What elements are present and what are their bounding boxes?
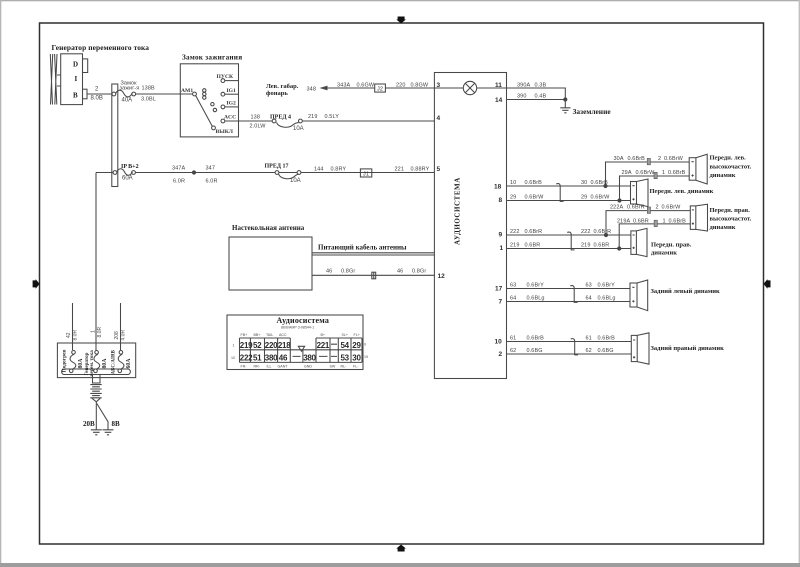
page edge left — [0, 0, 1, 567]
audio connector table box — [227, 315, 363, 370]
svg-text:6.0R: 6.0R — [173, 179, 185, 185]
wire branch tweeter L minus — [620, 176, 690, 201]
svg-text:460.8Gr: 460.8Gr — [326, 268, 355, 274]
svg-text:IG2: IG2 — [227, 101, 237, 107]
front left speaker — [631, 179, 649, 207]
battery fuse box — [57, 343, 135, 378]
harness mark front right pair — [567, 232, 574, 250]
svg-text:GND: GND — [304, 364, 312, 368]
svg-text:343A0.6GW: 343A0.6GW — [337, 82, 375, 88]
svg-text:610.6BrB: 610.6BrB — [510, 336, 544, 342]
front right speaker — [631, 228, 647, 256]
svg-text:зажиг-я: зажиг-я — [120, 86, 140, 92]
page edge right — [799, 0, 800, 567]
svg-text:14: 14 — [495, 97, 503, 104]
svg-text:4.0R: 4.0R — [121, 330, 127, 341]
svg-text:348: 348 — [307, 86, 316, 92]
ground junction node — [563, 97, 567, 101]
svg-text:ACC: ACC — [224, 115, 236, 121]
svg-text:SL+: SL+ — [342, 333, 349, 337]
fusible link Подогрев 80A — [62, 350, 85, 373]
wire antenna to pin 12 — [312, 274, 434, 276]
fusible link strip — [112, 84, 118, 187]
table row 1 numbers — [240, 341, 362, 350]
svg-text:11: 11 — [495, 82, 502, 89]
svg-text:8.0B: 8.0B — [91, 95, 103, 101]
svg-text:380: 380 — [265, 353, 278, 362]
svg-text:высокочастот.: высокочастот. — [710, 164, 752, 171]
svg-text:3900.4B: 3900.4B — [517, 94, 546, 100]
fuse ПРЕД 4 10A — [270, 114, 304, 132]
svg-text:5: 5 — [437, 166, 441, 173]
fusible link Генератор перем. тока 80A — [85, 350, 108, 377]
wire pin 2 to rear right speaker — [507, 353, 632, 355]
svg-text:Лев. габар.: Лев. габар. — [266, 83, 299, 90]
inline connector tweeter L minus — [654, 172, 657, 178]
wire pin 17 to rear left speaker — [507, 288, 631, 290]
svg-text:ПУСК: ПУСК — [217, 74, 234, 80]
svg-text:2190.6BR: 2190.6BR — [510, 242, 540, 248]
svg-text:RR-: RR- — [254, 364, 261, 368]
svg-text:FR-: FR- — [241, 364, 248, 368]
svg-text:460.8Gr: 460.8Gr — [397, 268, 426, 274]
svg-text:10А: 10А — [293, 126, 304, 132]
svg-text:290.6BrW: 290.6BrW — [581, 194, 610, 200]
svg-text:RL-: RL- — [341, 364, 348, 368]
svg-text:290.6BrW: 290.6BrW — [510, 194, 544, 200]
svg-text:620.6BG: 620.6BG — [586, 348, 614, 354]
battery — [90, 385, 101, 402]
svg-text:АМ1: АМ1 — [181, 88, 193, 94]
svg-text:3.0BL: 3.0BL — [141, 97, 156, 103]
svg-text:I: I — [75, 75, 78, 83]
wire J2 to audio pin 3 — [385, 87, 434, 89]
svg-text:Заземление: Заземление — [573, 107, 612, 116]
wire branch tweeter R plus — [606, 211, 690, 235]
svg-text:218: 218 — [278, 341, 291, 350]
alternator box — [61, 54, 83, 105]
ignition switch wiper — [196, 96, 213, 127]
junction connector J1 — [360, 169, 371, 177]
svg-text:29A0.6BrW: 29A0.6BrW — [622, 170, 656, 176]
svg-text:АБС/AIRB: АБС/AIRB — [112, 349, 117, 374]
svg-text:Питающий кабель антенны: Питающий кабель антенны — [318, 244, 407, 252]
svg-text:9: 9 — [499, 232, 503, 239]
svg-text:8: 8 — [499, 197, 503, 204]
svg-text:9: 9 — [364, 343, 366, 347]
svg-text:4: 4 — [437, 115, 441, 122]
ignition switch IG2 contact — [221, 105, 225, 109]
wire pin 14 to ground — [507, 99, 566, 101]
frame mark bottom — [396, 545, 406, 552]
svg-text:Настекольная антенна: Настекольная антенна — [232, 224, 305, 232]
svg-text:10А: 10А — [290, 178, 301, 184]
svg-text:220: 220 — [265, 341, 278, 350]
node tweeter R minus — [617, 246, 621, 250]
svg-text:ILL: ILL — [267, 364, 272, 368]
fuse ПРЕД 17 10A — [265, 163, 301, 184]
junction connector J2 — [375, 84, 386, 92]
harness mark front left pair — [556, 184, 563, 202]
inline connector tweeter L plus — [647, 158, 650, 164]
svg-text:18: 18 — [494, 183, 502, 190]
svg-text:2.0LW: 2.0LW — [250, 123, 267, 129]
svg-text:2190.5LY: 2190.5LY — [308, 114, 339, 120]
svg-text:8.0R: 8.0R — [97, 327, 103, 338]
wire fuse4 to audio pin 4 — [302, 120, 434, 122]
svg-text:Замок зажигания: Замок зажигания — [182, 54, 242, 62]
svg-text:2200.8GW: 2200.8GW — [396, 82, 429, 88]
svg-text:46: 46 — [279, 353, 288, 362]
bus bar — [62, 369, 131, 375]
svg-text:40А: 40А — [122, 97, 133, 103]
wire 40A fuse to ignition switch AM1 — [136, 93, 193, 95]
svg-text:19: 19 — [364, 355, 368, 359]
svg-text:Передн. лев.: Передн. лев. — [710, 155, 747, 162]
ignition switch IG1 contact — [221, 92, 225, 96]
svg-text:30A0.6BrB: 30A0.6BrB — [614, 156, 646, 162]
junction node on pin5 wire — [192, 170, 196, 174]
svg-text:10: 10 — [231, 356, 235, 360]
wire pin 18 to front left speaker — [507, 185, 631, 187]
svg-text:динамик: динамик — [710, 172, 736, 179]
svg-text:1: 1 — [233, 344, 235, 348]
svg-text:GANT: GANT — [278, 364, 289, 368]
frame mark top — [396, 17, 406, 24]
rear right speaker — [631, 333, 649, 364]
svg-text:Генератор переменного тока: Генератор переменного тока — [52, 43, 150, 52]
svg-text:29: 29 — [352, 341, 361, 350]
ignition switch movable contacts — [203, 89, 206, 92]
svg-text:динамик: динамик — [710, 224, 736, 231]
svg-text:8.0R: 8.0R — [73, 330, 79, 341]
illumination lamp — [434, 81, 506, 94]
svg-text:ПРЕД 17: ПРЕД 17 — [265, 163, 289, 169]
svg-text:12: 12 — [438, 273, 446, 280]
svg-text:Задний левый динамик: Задний левый динамик — [651, 288, 721, 295]
svg-text:347: 347 — [206, 166, 215, 172]
wire pin 11 to ground — [507, 88, 566, 100]
table top labels — [241, 333, 360, 337]
ignition switch ПУСК contact — [221, 79, 225, 83]
fusible link АБС/AIRB 60A — [112, 349, 133, 374]
audio head unit box — [434, 73, 506, 379]
svg-text:фонарь: фонарь — [266, 90, 288, 97]
node tweeter R plus — [604, 233, 608, 237]
table row 2 numbers — [240, 353, 362, 362]
svg-text:J1: J1 — [363, 172, 369, 178]
table grid — [240, 338, 363, 362]
svg-text:10.6BrB: 10.6BrB — [662, 170, 686, 176]
node tweeter L minus — [617, 198, 621, 202]
svg-text:2220.6BrR: 2220.6BrR — [510, 229, 542, 235]
svg-text:53: 53 — [341, 353, 350, 362]
ground symbol — [560, 100, 570, 113]
svg-text:BB+: BB+ — [254, 333, 261, 337]
svg-text:Передн. прав.: Передн. прав. — [651, 241, 692, 248]
svg-text:Передн. лев. динамик: Передн. лев. динамик — [650, 188, 714, 195]
svg-text:ACC: ACC — [279, 333, 287, 337]
svg-text:52: 52 — [253, 341, 262, 350]
battery connector — [93, 375, 101, 384]
ignition switch box — [180, 64, 238, 137]
svg-text:60А: 60А — [126, 358, 132, 369]
svg-text:138B: 138B — [142, 86, 155, 92]
svg-text:80А: 80А — [78, 358, 84, 369]
svg-text:2210.88RY: 2210.88RY — [395, 167, 430, 173]
svg-text:1: 1 — [500, 245, 504, 252]
svg-text:SW: SW — [330, 364, 336, 368]
svg-text:380: 380 — [303, 353, 316, 362]
svg-text:208: 208 — [114, 331, 120, 340]
svg-text:347A: 347A — [172, 166, 185, 172]
table dash marks — [293, 344, 338, 356]
wire right branch into fuse box — [120, 303, 122, 350]
svg-text:219: 219 — [240, 341, 253, 350]
svg-text:2: 2 — [95, 87, 99, 93]
svg-text:IP B+2: IP B+2 — [121, 164, 139, 170]
wire ACC to fuse ПРЕД4 — [225, 120, 272, 122]
svg-text:222: 222 — [240, 353, 253, 362]
svg-text:640.6BLg: 640.6BLg — [586, 296, 616, 302]
svg-text:7: 7 — [499, 298, 503, 305]
wire generator B to fuse strip — [87, 93, 112, 95]
ignition switch ВЫКЛ contact — [212, 126, 216, 130]
svg-text:АУДИОСИСТЕМА: АУДИОСИСТЕМА — [454, 177, 462, 245]
wire branch tweeter L plus — [606, 162, 690, 186]
svg-text:640.6BLg: 640.6BLg — [510, 296, 545, 302]
wire IP B+2 run (pin 5 line) — [96, 172, 434, 174]
svg-text:86/6/AMP 3-08544-1: 86/6/AMP 3-08544-1 — [281, 326, 314, 330]
svg-text:FL+: FL+ — [354, 333, 360, 337]
frame mark left — [33, 279, 40, 289]
inline connector tweeter R plus — [647, 207, 650, 213]
svg-text:FB+: FB+ — [241, 333, 248, 337]
table bottom labels — [241, 364, 360, 368]
node tweeter L plus — [603, 184, 607, 188]
svg-text:перем. тока: перем. тока — [90, 350, 95, 377]
svg-text:42: 42 — [66, 332, 72, 338]
svg-text:10: 10 — [495, 338, 503, 345]
svg-text:20.6BrW: 20.6BrW — [658, 156, 684, 162]
svg-text:динамик: динамик — [651, 249, 677, 256]
ground 8B symbol — [103, 430, 114, 435]
wire pin 8 to front left speaker — [507, 200, 631, 202]
svg-text:J2: J2 — [377, 87, 383, 93]
svg-text:B+: B+ — [321, 333, 326, 337]
table pointer triangle — [298, 346, 304, 351]
harness mark rear left pair — [570, 286, 577, 303]
svg-text:Подогрев: Подогрев — [62, 350, 68, 373]
glass antenna box — [229, 237, 312, 290]
svg-text:221: 221 — [317, 341, 330, 350]
svg-text:30: 30 — [352, 353, 361, 362]
wire pin 7 to rear left speaker — [507, 301, 631, 303]
antenna feed cable double line — [312, 253, 434, 255]
svg-text:IG1: IG1 — [227, 88, 237, 94]
page edge bottom strip — [0, 563, 800, 567]
harness mark rear right pair — [571, 339, 578, 355]
tweeter front right — [690, 204, 707, 231]
svg-text:54: 54 — [341, 341, 350, 350]
wire pin 10 to rear right speaker — [507, 341, 632, 343]
svg-text:2: 2 — [499, 351, 503, 358]
svg-text:ВЫКЛ: ВЫКЛ — [216, 129, 234, 135]
ignition switch ACC contact — [221, 119, 225, 123]
fusible link 40A (Замок зажиг-я) — [112, 81, 139, 104]
wire arrow to J2 — [326, 87, 375, 89]
svg-text:8В: 8В — [112, 420, 121, 428]
svg-text:222A0.6BrR: 222A0.6BrR — [610, 205, 645, 211]
wire branch tweeter R minus — [619, 224, 690, 249]
svg-text:Передн. прав.: Передн. прав. — [710, 207, 751, 214]
svg-text:138: 138 — [251, 114, 260, 120]
inline connector antenna wire — [372, 272, 376, 279]
svg-text:3: 3 — [437, 82, 441, 89]
svg-text:630.6BrY: 630.6BrY — [510, 283, 544, 289]
wire pin 1 to front right speaker — [507, 248, 631, 250]
wire battery feed descent — [95, 173, 97, 351]
alternator terminal B rect — [83, 89, 88, 99]
wire left branch into fuse box — [72, 303, 74, 350]
svg-text:Задний правый динамик: Задний правый динамик — [651, 345, 725, 352]
table side pin marks — [231, 343, 368, 361]
svg-text:TAIL: TAIL — [266, 333, 273, 337]
svg-text:630.6BrY: 630.6BrY — [586, 283, 616, 289]
svg-text:1: 1 — [91, 330, 97, 333]
ground 20B symbol — [91, 430, 102, 435]
wire battery to ground 8B — [97, 404, 108, 430]
tweeter front left — [689, 154, 707, 184]
rear left speaker — [630, 280, 648, 311]
svg-text:51: 51 — [253, 353, 262, 362]
svg-text:2190.6BR: 2190.6BR — [581, 242, 609, 248]
wire pin 9 to front right speaker — [507, 234, 631, 236]
alternator pulley — [50, 54, 60, 105]
svg-text:17: 17 — [495, 285, 503, 292]
svg-text:620.6BG: 620.6BG — [510, 348, 543, 354]
frame mark right — [764, 279, 771, 289]
svg-text:80А: 80А — [102, 358, 108, 369]
fusible link IP B+2 60A — [113, 164, 138, 182]
svg-text:Аудиосистема: Аудиосистема — [277, 316, 330, 325]
svg-text:60А: 60А — [122, 176, 133, 182]
svg-text:610.6BrB: 610.6BrB — [586, 336, 616, 342]
svg-text:20В: 20В — [83, 420, 95, 428]
inline connector tweeter R minus — [654, 220, 657, 226]
alternator terminal D rect — [83, 59, 88, 73]
svg-text:высокочастот.: высокочастот. — [710, 216, 752, 223]
svg-text:390A0.3B: 390A0.3B — [517, 82, 546, 88]
arrow to marker light — [320, 86, 328, 91]
svg-text:1440.8RY: 1440.8RY — [314, 167, 346, 173]
svg-text:FL-: FL- — [353, 364, 359, 368]
svg-text:100.6BrB: 100.6BrB — [510, 180, 542, 186]
svg-text:20.6BrW: 20.6BrW — [656, 205, 682, 211]
svg-text:B: B — [73, 92, 78, 100]
svg-text:6.0R: 6.0R — [206, 179, 218, 185]
svg-text:D: D — [73, 61, 78, 69]
svg-text:219A0.6BR: 219A0.6BR — [617, 218, 649, 224]
page edge top — [0, 0, 800, 1]
wire battery to ground 20B — [95, 402, 97, 430]
